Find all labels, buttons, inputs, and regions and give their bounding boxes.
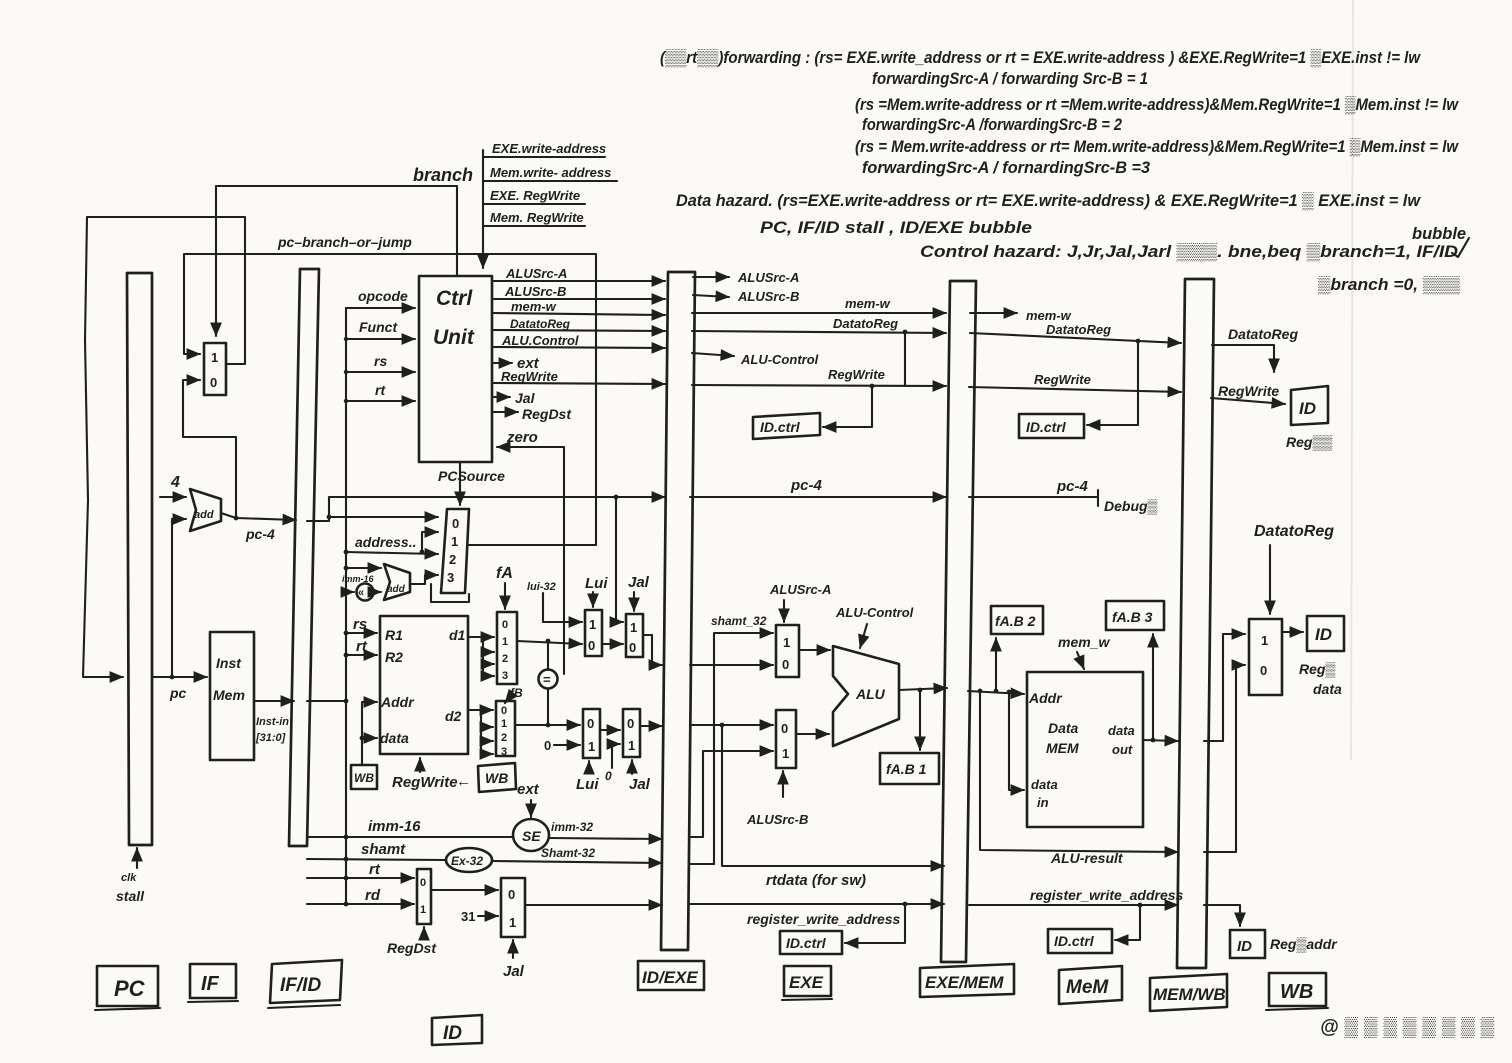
wire constant 0 into Lui lower xyxy=(544,738,580,753)
wire ALUSrc-A select xyxy=(769,582,831,622)
wire tap up to fA.B2 xyxy=(995,638,997,691)
wire clk stall into PC xyxy=(116,848,145,904)
wire ctrl DatatoReg out xyxy=(492,317,665,331)
wire address line xyxy=(344,534,438,554)
wire ALUSrc-A after ID/EXE xyxy=(693,270,799,285)
wire Jal upper select xyxy=(628,574,650,611)
wire data out to MEM/WB and fA.B3 xyxy=(1143,634,1178,742)
wire 0 into Jal lower xyxy=(605,744,620,783)
wire ALU-Control after ID/EXE xyxy=(692,352,819,367)
svg-text:DatatoReg: DatatoReg xyxy=(1228,326,1298,342)
equality comparator xyxy=(539,670,558,689)
stage label MeM xyxy=(1059,966,1122,1004)
shift-left circle xyxy=(357,584,374,601)
svg-text:Mem: Mem xyxy=(213,687,245,703)
svg-text:mem_w: mem_w xyxy=(1058,634,1110,650)
svg-text:Ex-32: Ex-32 xyxy=(451,854,483,868)
wire RegWrite after MEM/WB to ID box xyxy=(1211,383,1332,451)
wire Jal31 select xyxy=(503,940,525,980)
wire ALUSrc-A mux out xyxy=(799,649,830,651)
svg-text:1: 1 xyxy=(588,739,595,754)
svg-text:data: data xyxy=(1108,723,1135,738)
wire pc-4 debug xyxy=(969,478,1158,515)
svg-text:pc: pc xyxy=(169,685,187,701)
svg-text:d2: d2 xyxy=(445,708,462,724)
wire pc+4 to Jal upper mux xyxy=(614,495,623,622)
svg-text:forwardingSrc-A / fornardingSr: forwardingSrc-A / fornardingSrc-B =3 xyxy=(862,159,1150,177)
wire ALU result to data mem Addr xyxy=(968,689,1024,695)
wire Jal lower out to ID/EXE xyxy=(640,725,662,727)
svg-text:WB: WB xyxy=(354,771,374,785)
paper crease line xyxy=(1351,0,1353,760)
wire DatatoReg EXE stage xyxy=(692,316,946,333)
wire constant 4 into add1 xyxy=(160,474,186,497)
wire imm-32 out of SE to ID/EXE xyxy=(549,820,662,839)
wire ALUSrc-B mux out xyxy=(796,733,829,735)
svg-text:ID/EXE: ID/EXE xyxy=(642,968,698,987)
svg-text:fB: fB xyxy=(510,686,523,700)
stage label EXE/MEM xyxy=(920,964,1014,997)
wire ctrl Jal stub xyxy=(492,390,536,406)
svg-text:rt: rt xyxy=(369,861,381,878)
wire pc_branch_or_jump loop xyxy=(184,234,596,545)
fA.B 1 box xyxy=(880,753,939,784)
WB box right xyxy=(478,763,516,792)
svg-text:imm-32: imm-32 xyxy=(551,820,593,834)
svg-text:Lui: Lui xyxy=(576,776,599,793)
svg-text:RegWrite: RegWrite xyxy=(392,774,458,791)
wire operand A to ALUSrc-A mux xyxy=(690,664,773,666)
svg-text:0: 0 xyxy=(588,638,595,653)
wire ctrl ALU.Control out xyxy=(492,333,665,348)
mux writeback xyxy=(1249,619,1282,695)
svg-text:0: 0 xyxy=(210,375,217,390)
wire funct into ctrl xyxy=(344,319,415,341)
svg-text:DatatoReg: DatatoReg xyxy=(833,316,898,331)
adder add1 xyxy=(190,489,221,531)
wire shifter input imm-16 xyxy=(342,574,375,594)
wire ctrl RegDst stub xyxy=(492,406,572,422)
svg-text:1: 1 xyxy=(211,350,218,365)
stage label MEM/WB xyxy=(1150,974,1227,1011)
svg-text:WB: WB xyxy=(1280,981,1313,1003)
wire ALU-result down to MEM/WB xyxy=(980,691,1178,866)
ALU xyxy=(833,646,899,746)
svg-text:Ctrl: Ctrl xyxy=(436,287,473,310)
pipeline register IF/ID bar xyxy=(289,269,319,846)
svg-text:pc-4: pc-4 xyxy=(245,526,275,542)
wire Lui lower select xyxy=(576,761,599,793)
svg-text:fA.B 1: fA.B 1 xyxy=(886,761,927,777)
svg-text:RegDst: RegDst xyxy=(522,406,572,422)
svg-text:1: 1 xyxy=(501,718,507,730)
svg-text:pc-4: pc-4 xyxy=(790,477,823,494)
wire rt to RegDst mux xyxy=(307,861,414,880)
wire taps into ID.ctrl EXE xyxy=(823,330,907,427)
wire ALU-result after MEM/WB into wb mux 0 xyxy=(1204,665,1245,852)
ID.ctrl box EXE bottom xyxy=(780,931,842,954)
wire ctrl ALUSrc-A out xyxy=(492,266,665,281)
svg-text:3: 3 xyxy=(501,746,507,758)
svg-text:fA: fA xyxy=(496,565,513,582)
wire ALUSrc-B select xyxy=(746,771,808,827)
svg-text:MeM: MeM xyxy=(1066,977,1109,998)
svg-text:stall: stall xyxy=(116,888,145,904)
wire rtdata for sw xyxy=(722,725,944,889)
stage label PC xyxy=(95,966,160,1010)
svg-text:3: 3 xyxy=(447,570,454,585)
svg-text:ALU-result: ALU-result xyxy=(1050,850,1124,866)
ID.ctrl box MEM top xyxy=(1019,414,1084,438)
svg-text:1: 1 xyxy=(628,738,635,753)
mux PCSource xyxy=(441,509,469,593)
wire constant 31 into Jal31 mux xyxy=(461,909,498,924)
svg-text:out: out xyxy=(1112,742,1133,757)
mux ALUSrc-B xyxy=(776,710,796,768)
wire next-pc mux output to PC xyxy=(83,217,245,677)
wire rs into register file xyxy=(344,616,377,635)
stage label IF/ID xyxy=(268,960,342,1008)
svg-text:lui-32: lui-32 xyxy=(527,581,556,593)
svg-text:ALUSrc-A: ALUSrc-A xyxy=(505,266,567,281)
svg-text:ALUSrc-B: ALUSrc-B xyxy=(504,284,566,299)
svg-text:ext: ext xyxy=(517,781,540,798)
wire register_write_address MEM xyxy=(969,887,1184,940)
mux Lui lower xyxy=(583,709,600,758)
wire address to PCSource mux input1 xyxy=(420,532,438,554)
wire pc feedback into add1 xyxy=(170,519,186,679)
svg-text:Shamt-32: Shamt-32 xyxy=(541,846,595,860)
svg-text:Addr: Addr xyxy=(380,694,415,710)
svg-text:add: add xyxy=(387,584,406,595)
svg-text:2: 2 xyxy=(502,653,508,665)
mux fA xyxy=(497,612,517,684)
svg-text:(▒▒rt▒▒)forwarding : (rs= EXE.: (▒▒rt▒▒)forwarding : (rs= EXE.write_addr… xyxy=(660,49,1421,67)
wire pc+4 into next-pc mux 0 xyxy=(183,380,238,520)
ID box regwrite xyxy=(1291,386,1328,425)
svg-text:1: 1 xyxy=(630,620,637,635)
wire RegWrite MEM stage xyxy=(969,372,1181,392)
svg-text:ID: ID xyxy=(1315,625,1332,644)
fA.B 2 box xyxy=(991,606,1043,634)
wire DatatoReg MEM stage xyxy=(970,322,1181,343)
svg-text:Reg▒addr: Reg▒addr xyxy=(1270,936,1338,953)
svg-text:rt: rt xyxy=(375,382,386,398)
wire data out after MEM/WB into wb mux 1 xyxy=(1204,634,1245,741)
svg-text:RegWrite: RegWrite xyxy=(501,369,558,384)
wire Jal lower select xyxy=(629,760,651,793)
svg-text:data: data xyxy=(1031,777,1058,792)
svg-text:0: 0 xyxy=(502,619,508,631)
stage label ID/EXE xyxy=(638,961,704,990)
svg-text:ID.ctrl: ID.ctrl xyxy=(760,419,801,435)
svg-text:@▒▒▒▒▒▒▒▒: @▒▒▒▒▒▒▒▒ xyxy=(1320,1017,1500,1038)
wire tap into ID.ctrl MEM xyxy=(1087,339,1140,425)
wire Jal upper out to ID/EXE xyxy=(643,635,662,665)
wire Lui lower out xyxy=(600,729,620,731)
svg-text:PC, IF/ID stall , ID/EXE: PC, IF/ID stall , ID/EXE bubble xyxy=(760,219,1032,237)
wire shifter out to add2 xyxy=(374,591,381,593)
svg-text:ALU: ALU xyxy=(855,686,886,702)
svg-text:forwardingSrc-A / forwarding S: forwardingSrc-A / forwarding Src-B = 1 xyxy=(872,70,1148,88)
wire add1 output pc-4 to IF/ID xyxy=(221,513,296,542)
svg-text:PCSource: PCSource xyxy=(438,468,505,484)
wire zero into ctrl xyxy=(497,429,564,674)
svg-text:Control hazard: J,Jr,Jal,Jar: Control hazard: J,Jr,Jal,Jarl ▒▒▒. bne,b… xyxy=(920,243,1458,261)
svg-text:0: 0 xyxy=(544,738,551,753)
svg-text:ID.ctrl: ID.ctrl xyxy=(786,935,827,951)
wire imm-16 to SE xyxy=(307,818,513,839)
svg-text:1: 1 xyxy=(451,534,458,549)
svg-text:ALUSrc-A: ALUSrc-A xyxy=(737,270,799,285)
svg-text:0: 0 xyxy=(781,721,788,736)
svg-text:fA.B 3: fA.B 3 xyxy=(1112,609,1153,625)
svg-text:RegWrite: RegWrite xyxy=(828,367,885,382)
fA.B 3 box xyxy=(1106,601,1164,630)
wire mem-w EXE stage xyxy=(692,296,946,313)
sign extend SE xyxy=(513,819,549,851)
mux next-pc xyxy=(204,343,226,395)
wire RegWrite EXE stage xyxy=(692,367,946,386)
svg-text:d1: d1 xyxy=(449,627,466,643)
pipeline register MEM/WB bar xyxy=(1177,279,1214,968)
svg-text:2: 2 xyxy=(501,732,507,744)
wire inst mem output xyxy=(254,701,294,744)
wire ctrl ALUSrc-B out xyxy=(492,284,665,299)
svg-text:0: 0 xyxy=(605,769,612,783)
adder add2 jump xyxy=(384,564,410,600)
wire d1 to fA mux with forwarding comb xyxy=(468,637,494,676)
svg-text:(rs =Mem.write-address or rt =: (rs =Mem.write-address or rt =Mem.write-… xyxy=(855,96,1459,114)
wire RegDst out to Jal31 mux xyxy=(431,889,498,891)
wire rs into ctrl xyxy=(344,353,415,374)
wire ALUSrc-B after ID/EXE xyxy=(693,289,799,304)
svg-text:bubble: bubble xyxy=(1412,225,1466,243)
svg-text:IF/ID: IF/ID xyxy=(280,975,321,996)
wire Lui upper select xyxy=(585,575,608,607)
svg-text:31: 31 xyxy=(461,909,475,924)
svg-text:0: 0 xyxy=(782,657,789,672)
ID box regdata xyxy=(1307,616,1344,651)
svg-text:rt: rt xyxy=(356,638,368,655)
wire rd to RegDst mux xyxy=(307,887,414,906)
svg-text:imm-16: imm-16 xyxy=(368,818,421,835)
svg-text:DatatoReg: DatatoReg xyxy=(510,317,571,331)
svg-text:fA.B 2: fA.B 2 xyxy=(995,613,1036,629)
mux Jal31 xyxy=(501,878,525,937)
svg-text:Unit: Unit xyxy=(433,326,475,349)
ID.ctrl box EXE top xyxy=(753,413,820,439)
wire ctrl ext stub xyxy=(492,355,540,372)
svg-text:ID.ctrl: ID.ctrl xyxy=(1026,419,1067,435)
svg-text:EXE. RegWrite: EXE. RegWrite xyxy=(490,188,580,203)
svg-text:rtdata (for sw): rtdata (for sw) xyxy=(766,872,866,889)
svg-text:ID: ID xyxy=(1299,399,1316,418)
svg-text:rs: rs xyxy=(374,353,387,369)
svg-text:ALUSrc-A: ALUSrc-A xyxy=(769,582,831,597)
svg-text:▒branch =0, ▒▒▒: ▒branch =0, ▒▒▒ xyxy=(1318,276,1460,294)
wire imm-32 to ALUSrc-B mux xyxy=(690,751,773,837)
wire mem-w after EXE/MEM xyxy=(970,308,1072,323)
svg-text:Jal: Jal xyxy=(515,390,536,406)
wire ALU-Control select into ALU xyxy=(835,605,914,648)
wire d2 to fB mux with comb xyxy=(468,686,523,754)
wire pc-4 long line ID stage xyxy=(307,497,665,521)
svg-text:Jal: Jal xyxy=(503,963,525,980)
pipeline register ID/EXE bar xyxy=(661,272,695,950)
svg-text:pc-4: pc-4 xyxy=(1056,478,1089,495)
svg-text:MEM/WB: MEM/WB xyxy=(1153,985,1226,1004)
wire pc to inst mem xyxy=(152,677,207,701)
wire lui-32 into Lui mux xyxy=(527,581,582,622)
svg-text:1: 1 xyxy=(509,915,516,930)
svg-text:3: 3 xyxy=(502,670,508,682)
extend Ex-32 xyxy=(446,848,492,872)
wire ctrl RegWrite out xyxy=(492,369,665,384)
svg-text:«: « xyxy=(358,587,364,599)
svg-text:data: data xyxy=(1313,681,1342,697)
svg-text:Reg▒: Reg▒ xyxy=(1299,661,1335,678)
wire register_write_address after MEM/WB to ID box xyxy=(1204,905,1338,953)
svg-text:pc–branch–or–jump: pc–branch–or–jump xyxy=(277,234,412,250)
svg-text:4: 4 xyxy=(170,474,180,491)
svg-text:shamt: shamt xyxy=(361,841,406,858)
svg-text:mem-w: mem-w xyxy=(845,296,891,311)
svg-text:rs: rs xyxy=(353,616,367,633)
svg-text:[31:0]: [31:0] xyxy=(255,732,286,744)
wire PCSource select xyxy=(438,462,505,505)
svg-text:branch: branch xyxy=(413,165,473,185)
svg-text:ID: ID xyxy=(1237,938,1252,955)
svg-text:Inst-in: Inst-in xyxy=(256,716,289,728)
svg-text:RegWrite: RegWrite xyxy=(1034,372,1091,387)
svg-text:ALU-Control: ALU-Control xyxy=(835,605,914,620)
svg-text:R1: R1 xyxy=(385,627,403,643)
mux Jal upper xyxy=(626,614,643,657)
svg-text:address..: address.. xyxy=(355,534,416,550)
wire shamt through Ex-32 xyxy=(307,841,662,863)
svg-text:register_write_address: register_write_address xyxy=(1030,887,1184,903)
control unit U1 xyxy=(419,276,492,462)
wire DatatoReg select into wb mux xyxy=(1254,523,1334,614)
wire RegWrite select into register file xyxy=(392,758,471,791)
svg-text:Inst: Inst xyxy=(216,655,242,671)
svg-text:0: 0 xyxy=(1260,663,1267,678)
wire add2 out to PCSource mux input3 xyxy=(410,575,469,602)
wire shamt_32 to ALUSrc-A mux xyxy=(690,614,773,864)
svg-text:Jal: Jal xyxy=(628,574,650,591)
svg-text:mem-w: mem-w xyxy=(1026,308,1072,323)
svg-text:Mem. RegWrite: Mem. RegWrite xyxy=(490,210,584,225)
svg-text:EXE: EXE xyxy=(789,973,824,992)
svg-text:Debug▒: Debug▒ xyxy=(1104,498,1158,515)
stage label ID xyxy=(432,1015,482,1045)
svg-text:EXE.write-address: EXE.write-address xyxy=(492,141,606,156)
svg-text:0: 0 xyxy=(627,716,634,731)
svg-text:clk: clk xyxy=(121,872,137,884)
svg-text:DatatoReg: DatatoReg xyxy=(1046,322,1111,337)
svg-text:WB: WB xyxy=(485,770,508,786)
wire fA out to Lui mux xyxy=(517,639,582,644)
wire ctrl mem-w out xyxy=(492,299,665,315)
svg-text:Mem.write- address: Mem.write- address xyxy=(490,165,611,180)
svg-text:1: 1 xyxy=(1261,633,1268,648)
wire Jal31 out register write address xyxy=(525,904,662,906)
svg-text:mem-w: mem-w xyxy=(511,299,557,314)
svg-text:IF: IF xyxy=(201,973,220,995)
mux fB xyxy=(496,701,515,758)
wire register_write_address EXE xyxy=(690,902,944,943)
svg-text:DatatoReg: DatatoReg xyxy=(1254,523,1334,540)
svg-text:ALUSrc-B: ALUSrc-B xyxy=(746,812,808,827)
wire operand B to ALUSrc-B mux xyxy=(690,723,773,728)
svg-text:zero: zero xyxy=(506,429,538,446)
svg-text:←: ← xyxy=(456,773,471,790)
svg-text:Data hazard. (rs=EXE.write-ad: Data hazard. (rs=EXE.write-address or rt… xyxy=(676,192,1421,210)
wire d1 tap to comparator xyxy=(547,641,549,670)
svg-text:EXE/MEM: EXE/MEM xyxy=(925,973,1004,992)
svg-text:ID: ID xyxy=(443,1023,462,1044)
instruction memory xyxy=(210,632,254,760)
wire mem_w select into data mem xyxy=(1058,634,1110,669)
svg-text:(rs = Mem.write-address or r: (rs = Mem.write-address or rt= Mem.write… xyxy=(855,138,1459,156)
svg-text:1: 1 xyxy=(589,617,596,632)
svg-text:0: 0 xyxy=(420,877,426,889)
wire rt into register file xyxy=(344,638,377,657)
mux ALUSrc-A xyxy=(776,625,799,677)
svg-text:ALU-Control: ALU-Control xyxy=(740,352,819,367)
svg-text:=: = xyxy=(543,672,551,687)
mux Lui upper xyxy=(585,610,602,656)
svg-text:0: 0 xyxy=(629,640,636,655)
svg-text:forwardingSrc-A /forwardingSrc: forwardingSrc-A /forwardingSrc-B = 2 xyxy=(862,116,1122,134)
svg-text:Data: Data xyxy=(1048,720,1079,736)
svg-text:in: in xyxy=(1037,795,1049,810)
wire rt into ctrl xyxy=(344,382,415,403)
svg-text:RegWrite: RegWrite xyxy=(1218,383,1279,399)
svg-text:SE: SE xyxy=(522,828,541,844)
svg-text:data: data xyxy=(380,730,409,746)
pipeline register EXE/MEM bar xyxy=(941,281,976,962)
svg-text:opcode: opcode xyxy=(358,288,408,304)
svg-text:add: add xyxy=(194,509,214,521)
stage label IF xyxy=(188,964,238,1002)
svg-text:0: 0 xyxy=(501,705,507,717)
svg-text:2: 2 xyxy=(449,552,456,567)
wire EXE/Mem status inputs into ctrl xyxy=(483,141,617,268)
WB box left xyxy=(351,765,377,789)
svg-text:R2: R2 xyxy=(385,649,403,665)
wire add2 upper input xyxy=(344,566,381,571)
svg-text:RegDst: RegDst xyxy=(387,940,437,956)
wire instruction bus vertical xyxy=(307,308,348,904)
wire fA select xyxy=(496,565,513,609)
svg-text:1: 1 xyxy=(782,746,789,761)
wire wb mux out to ID regdata xyxy=(1282,632,1342,697)
svg-text:Reg▒▒: Reg▒▒ xyxy=(1286,434,1332,451)
ID box regaddr xyxy=(1230,930,1265,958)
svg-text:1: 1 xyxy=(502,636,508,648)
svg-text:PC: PC xyxy=(114,976,146,1001)
svg-text:0: 0 xyxy=(508,887,515,902)
svg-text:Addr: Addr xyxy=(1028,690,1063,706)
wire ALU out to EXE/MEM xyxy=(899,688,947,750)
svg-text:1: 1 xyxy=(783,635,790,650)
ID.ctrl box MEM bottom xyxy=(1048,929,1112,953)
svg-text:register_write_address: register_write_address xyxy=(747,911,901,927)
mux RegDst xyxy=(417,869,431,924)
wire pc-4 EXE stage xyxy=(690,477,946,497)
